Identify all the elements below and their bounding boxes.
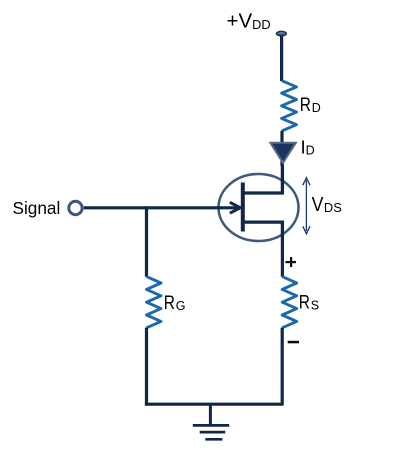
resistor RS <box>282 277 297 328</box>
svg-text:+VDD: +VDD <box>227 10 271 33</box>
wire RS to ground rail <box>281 328 284 405</box>
terminal Signal <box>69 201 82 214</box>
label minus polarity <box>288 341 299 344</box>
wire gate junction to RG <box>145 206 148 277</box>
svg-text:RG: RG <box>164 292 186 314</box>
ground <box>193 404 229 439</box>
wire source to RS <box>281 236 284 277</box>
voltage arrow VDS <box>303 178 310 234</box>
wire RG to ground rail <box>145 328 148 406</box>
terminal node VDD <box>277 31 287 35</box>
resistor RD <box>282 81 297 131</box>
wire VDD node to RD <box>280 36 283 82</box>
svg-text:VDS: VDS <box>312 194 342 216</box>
transistor Q1 (N-JFET) <box>219 162 299 241</box>
ground rail wire <box>145 403 284 406</box>
wire gate (Signal to Q1) <box>84 206 239 209</box>
label plus polarity <box>285 257 296 267</box>
wire RD to current arrow <box>280 131 283 166</box>
svg-text:RS: RS <box>299 291 319 313</box>
resistor RG <box>147 277 162 328</box>
current arrow ID <box>270 143 296 163</box>
svg-text:ID: ID <box>301 137 315 158</box>
svg-text:RD: RD <box>300 94 321 116</box>
svg-text:Signal: Signal <box>13 198 61 218</box>
